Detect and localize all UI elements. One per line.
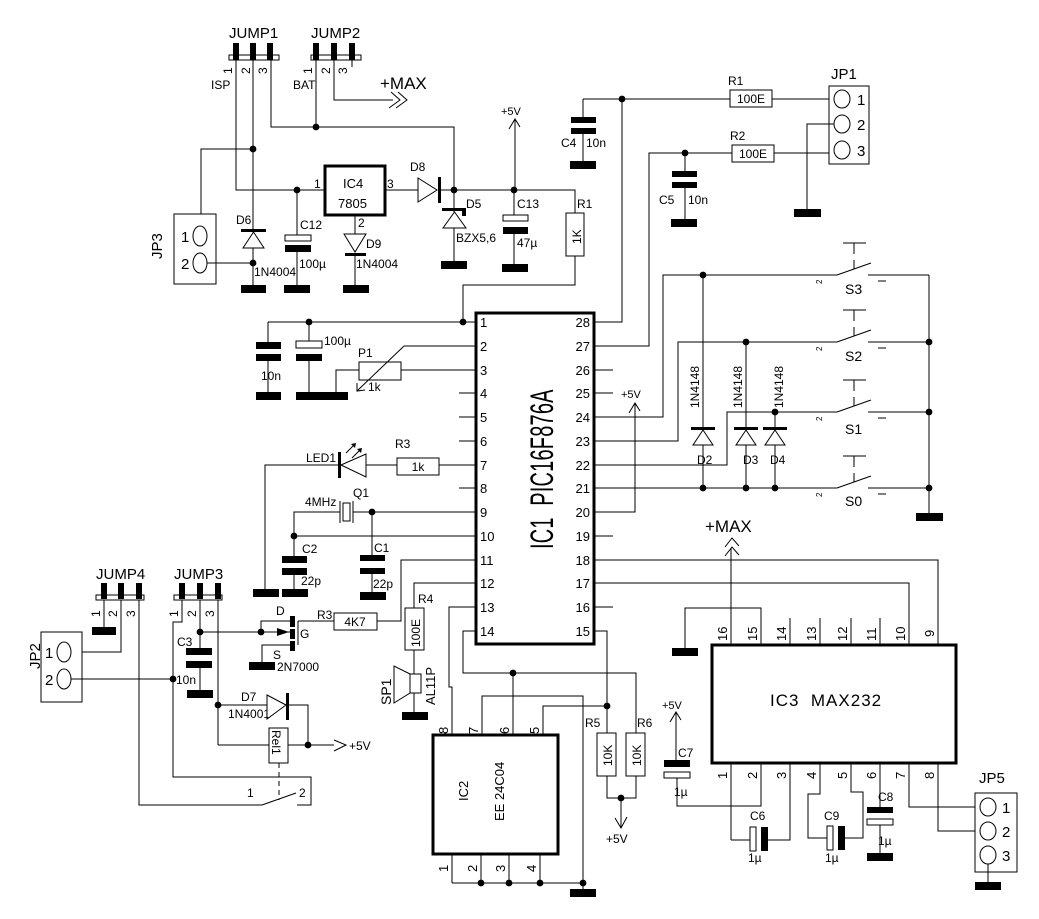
wire PIC pin24 to S3 <box>594 275 837 417</box>
svg-text:C2: C2 <box>302 542 318 556</box>
wire JP1 pin2 to ground <box>807 124 834 209</box>
svg-text:4: 4 <box>804 772 819 779</box>
svg-text:R1: R1 <box>728 74 744 88</box>
svg-text:R2: R2 <box>730 129 746 143</box>
svg-text:IC1 PIC16F876A: IC1 PIC16F876A <box>524 389 560 549</box>
node junction rail pin3 <box>506 880 513 887</box>
relay contact dashed link <box>278 763 280 800</box>
potentiometer P1 1k <box>357 346 404 394</box>
power symbol +5V (Rel1) <box>308 739 371 753</box>
svg-text:2: 2 <box>745 772 760 779</box>
svg-text:1: 1 <box>89 610 103 617</box>
wire IC3 pin3 to C6 <box>768 763 790 840</box>
svg-text:4K7: 4K7 <box>344 615 366 629</box>
wire IC2 pin5 to R5 node <box>543 706 607 735</box>
wire IC2 pin2 down <box>480 854 482 883</box>
pin stub IC1 pin6 <box>459 440 476 442</box>
svg-text:10: 10 <box>893 627 908 641</box>
wire JUMP3 pin1 to relay contact 2 <box>173 600 311 805</box>
switch S1 <box>815 380 886 437</box>
ground (JP5) <box>975 882 1001 890</box>
pin stub IC3 pin13 <box>819 618 821 645</box>
svg-text:16: 16 <box>715 627 730 641</box>
transistor Q 2N7000 <box>261 604 319 674</box>
svg-text:9: 9 <box>922 630 937 637</box>
svg-text:1µ: 1µ <box>748 851 762 865</box>
svg-text:3: 3 <box>480 363 487 378</box>
svg-text:JUMP3: JUMP3 <box>174 566 223 583</box>
svg-text:2: 2 <box>815 492 824 497</box>
wire node to C13 and R1 <box>454 190 575 213</box>
svg-text:2: 2 <box>815 279 824 284</box>
svg-text:2: 2 <box>319 67 333 74</box>
zener diode D5 BZX5,6 <box>442 190 496 261</box>
crystal Q1 4MHz <box>305 486 369 523</box>
svg-text:D7: D7 <box>241 690 257 704</box>
ground (10n) <box>256 392 281 400</box>
wire JUMP2 pin2 to +MAX arrow <box>334 60 393 100</box>
svg-text:1: 1 <box>715 772 730 779</box>
LED LED1 <box>306 443 366 478</box>
svg-text:3: 3 <box>493 865 508 872</box>
svg-text:R6: R6 <box>637 716 653 730</box>
resistor R5 10K <box>585 716 616 776</box>
wire IC1 pin11 to R3 4K7 <box>377 560 476 621</box>
connector header JUMP1 <box>221 25 279 74</box>
svg-text:21: 21 <box>576 481 590 496</box>
svg-text:9: 9 <box>480 505 487 520</box>
svg-text:S0: S0 <box>845 493 862 509</box>
regulator IC4 7805 <box>314 166 394 230</box>
wire IC1 pin17 to IC3 pin10 <box>594 583 909 645</box>
svg-text:R5: R5 <box>585 716 601 730</box>
svg-text:+5V: +5V <box>349 739 371 753</box>
speaker SP1 AL11P <box>378 666 438 712</box>
ground (100u) <box>296 392 322 400</box>
wire IC1 pin10 rail <box>294 535 476 537</box>
svg-text:1: 1 <box>167 610 181 617</box>
svg-text:2: 2 <box>45 672 53 689</box>
wire R1 to JP1 pin1 <box>772 98 834 100</box>
svg-text:12: 12 <box>835 627 850 641</box>
svg-text:JUMP4: JUMP4 <box>96 566 145 583</box>
node junction C13 <box>511 187 518 194</box>
capacitor C8 1u <box>867 790 894 853</box>
resistor R1 100E <box>728 74 772 107</box>
svg-text:1µ: 1µ <box>878 834 892 848</box>
ground (D6) <box>241 285 266 293</box>
wire S0 to right rail <box>868 487 929 489</box>
connector header JUMP2 <box>301 25 361 74</box>
ground (2N7000 source) <box>249 662 275 670</box>
wire gate node to 2N7000 <box>200 631 290 633</box>
diode D8 <box>410 160 454 203</box>
svg-text:IC3 MAX232: IC3 MAX232 <box>770 691 882 710</box>
wire P1 right to IC1 pin3 <box>401 369 476 371</box>
svg-text:IC2: IC2 <box>456 781 471 801</box>
capacitor C13 47u <box>503 190 539 264</box>
capacitor C1 22p <box>360 512 393 592</box>
ground (C4) <box>570 161 596 169</box>
svg-text:11: 11 <box>480 553 494 568</box>
svg-text:1N4148: 1N4148 <box>772 366 786 408</box>
wire JUMP3 pin2 down <box>199 600 201 648</box>
wire S2 to right rail <box>868 341 929 343</box>
driver IC3 MAX232 <box>712 627 956 779</box>
node junction IC2 pin6 <box>510 670 517 677</box>
capacitor C3 10n <box>176 635 212 690</box>
ground (C3) <box>187 690 213 698</box>
svg-text:C8: C8 <box>878 790 894 804</box>
svg-text:R3: R3 <box>395 437 411 451</box>
node junction rail pin2 <box>478 880 485 887</box>
wire JP3 pin1 up <box>201 149 253 226</box>
node junction Rel1/D7 cathode <box>305 742 312 749</box>
wire IC2 pin1 down <box>451 854 453 883</box>
wire IC1 pin1 rail <box>268 321 476 323</box>
diode D7 1N4001 <box>218 690 308 745</box>
node junction D8 output <box>451 187 458 194</box>
svg-text:Rel1: Rel1 <box>269 730 283 755</box>
wire S3 to right rail <box>868 274 929 276</box>
node junction JUMP2 pin1 / rail <box>313 124 320 131</box>
svg-text:7: 7 <box>466 727 481 734</box>
svg-text:C4: C4 <box>561 136 577 150</box>
svg-text:1: 1 <box>247 786 254 800</box>
node junction D3/S2 <box>743 339 750 346</box>
svg-text:7805: 7805 <box>338 196 367 211</box>
svg-text:6: 6 <box>497 727 512 734</box>
svg-text:1N4004: 1N4004 <box>254 265 296 279</box>
diode D3 1N4148 <box>731 342 759 488</box>
ground (D5) <box>441 261 467 269</box>
svg-text:14: 14 <box>480 624 494 639</box>
svg-text:IC4: IC4 <box>343 176 363 191</box>
pin stub IC3 pin11 <box>879 618 881 645</box>
ground (C8) <box>867 853 893 861</box>
wire JUMP4 pin2 to JP2 pin1 <box>71 600 121 652</box>
svg-text:2: 2 <box>239 67 253 74</box>
svg-text:3: 3 <box>857 143 865 160</box>
ground (C5) <box>671 219 697 227</box>
microcontroller IC1 PIC16F876A <box>476 313 594 644</box>
svg-text:13: 13 <box>804 627 819 641</box>
wire IC3 pin2 to C7 <box>677 763 761 806</box>
wire Q1 right to IC1 pin9 <box>353 511 476 513</box>
svg-text:28: 28 <box>576 315 590 330</box>
svg-text:R1: R1 <box>577 197 593 211</box>
wire IC1 pin12 to R4 <box>414 583 476 608</box>
ground (JP1 pin2) <box>794 209 821 217</box>
node junction D2/S0 <box>700 485 707 492</box>
capacitor C4 10n <box>561 99 606 161</box>
svg-text:23: 23 <box>576 434 590 449</box>
svg-text:5: 5 <box>527 727 542 734</box>
svg-text:1: 1 <box>480 315 487 330</box>
svg-text:15: 15 <box>745 627 760 641</box>
pin stub IC1 pin25 <box>594 392 613 394</box>
svg-text:D3: D3 <box>743 453 759 467</box>
svg-text:10K: 10K <box>601 745 615 766</box>
resistor R4 100E <box>405 592 434 650</box>
connector header JUMP4 <box>89 566 145 617</box>
svg-text:D6: D6 <box>236 213 252 227</box>
capacitor C12 100u <box>285 190 326 285</box>
svg-text:8: 8 <box>436 727 451 734</box>
wire IC2 pin3 down <box>508 854 510 883</box>
resistor R1 1K <box>566 197 593 256</box>
wire IC2 pin7 to ground rail <box>482 696 583 883</box>
node junction C2/pin10 <box>291 533 298 540</box>
power symbol +MAX (IC3 pin16) <box>705 517 752 645</box>
node junction Q1/C1 <box>369 509 376 516</box>
wire JP5 pin3 to ground <box>987 864 989 882</box>
svg-text:10n: 10n <box>176 673 196 687</box>
svg-text:6: 6 <box>864 772 879 779</box>
svg-text:3: 3 <box>124 610 138 617</box>
node junction C3/gate <box>197 629 204 636</box>
svg-text:C5: C5 <box>659 193 675 207</box>
wire JUMP1 pin3 to D8 node rail <box>271 60 454 190</box>
svg-text:+5V: +5V <box>501 106 522 118</box>
svg-text:2: 2 <box>1002 824 1010 841</box>
wire IC1 pin13 to IC2 pin8 <box>449 607 476 735</box>
capacitor C9 1u <box>824 809 845 865</box>
svg-text:3: 3 <box>336 67 350 74</box>
pin stub IC1 pin16 <box>594 606 613 608</box>
svg-text:7: 7 <box>480 458 487 473</box>
svg-text:R3: R3 <box>317 608 333 622</box>
svg-text:24: 24 <box>576 410 590 425</box>
svg-text:27: 27 <box>576 339 590 354</box>
svg-text:4: 4 <box>480 386 487 401</box>
wire IC1 pin18 to IC3 pin9 <box>594 560 938 645</box>
svg-text:100E: 100E <box>737 92 765 106</box>
svg-text:BZX5,6: BZX5,6 <box>456 231 496 245</box>
ground (LED1) <box>253 589 279 597</box>
node junction 100u cap <box>306 319 313 326</box>
svg-text:D5: D5 <box>466 197 482 211</box>
svg-text:2: 2 <box>857 117 865 134</box>
svg-text:D8: D8 <box>410 160 426 174</box>
svg-text:10K: 10K <box>630 745 644 766</box>
node junction JP2 pin2 wire <box>170 676 177 683</box>
node junction D3/S0 <box>743 485 750 492</box>
svg-text:1N4148: 1N4148 <box>731 366 745 408</box>
svg-text:5: 5 <box>835 772 850 779</box>
svg-text:100E: 100E <box>739 147 767 161</box>
svg-text:4MHz: 4MHz <box>305 495 336 509</box>
svg-text:3: 3 <box>387 177 394 191</box>
svg-text:C7: C7 <box>678 746 694 760</box>
svg-text:+5V: +5V <box>606 832 628 846</box>
node junction R5/R6 <box>618 795 625 802</box>
svg-text:+5V: +5V <box>662 700 683 712</box>
svg-text:D2: D2 <box>697 453 713 467</box>
svg-text:2: 2 <box>815 416 824 421</box>
resistor R3 1k <box>366 437 439 475</box>
resistor R3 4K7 <box>317 608 377 630</box>
diode D2 1N4148 <box>688 275 715 488</box>
svg-text:6: 6 <box>480 434 487 449</box>
svg-text:AL11P: AL11P <box>423 667 438 705</box>
connector JP5 <box>975 770 1017 872</box>
node junction C5 <box>682 150 689 157</box>
wire JP3 pin2 to D6 node <box>207 262 253 264</box>
pin stub IC1 pin4 <box>459 392 476 394</box>
svg-text:1N4001: 1N4001 <box>228 707 270 721</box>
pin stub IC1 pin19 <box>594 535 613 537</box>
node junction 2N7000 drain link <box>258 629 265 636</box>
svg-text:1µ: 1µ <box>825 851 839 865</box>
svg-text:2: 2 <box>185 610 199 617</box>
svg-text:+5V: +5V <box>621 389 642 401</box>
pin stub IC1 pin5 <box>459 416 476 418</box>
svg-text:5: 5 <box>480 410 487 425</box>
svg-text:47µ: 47µ <box>517 236 537 250</box>
svg-text:22p: 22p <box>301 574 321 588</box>
node junction rail S0 <box>926 485 933 492</box>
svg-text:S3: S3 <box>845 281 862 297</box>
svg-text:20: 20 <box>576 505 590 520</box>
power symbol +MAX (top) <box>380 74 427 108</box>
pin stub IC3 pin12 <box>850 618 852 645</box>
diode D4 1N4148 <box>763 366 787 488</box>
pin stub IC1 pin26 <box>594 369 613 371</box>
power symbol +5V (C7) <box>662 700 683 760</box>
svg-text:D4: D4 <box>770 453 786 467</box>
capacitor C5 10n <box>659 153 708 219</box>
svg-text:2: 2 <box>358 216 365 230</box>
svg-text:22: 22 <box>576 458 590 473</box>
svg-text:+MAX: +MAX <box>380 74 427 93</box>
wire JUMP1 pin2 down to D6 <box>252 60 254 229</box>
svg-text:2: 2 <box>815 346 824 351</box>
pin stub IC3 pin14 <box>789 618 791 645</box>
node junction rail right <box>580 880 587 887</box>
svg-text:7: 7 <box>893 772 908 779</box>
svg-text:2: 2 <box>106 610 120 617</box>
wire IC3 pin4 to C9 <box>808 763 827 838</box>
ground (C12) <box>284 285 310 293</box>
node junction D4/S0 <box>772 485 779 492</box>
svg-text:14: 14 <box>774 627 789 641</box>
svg-text:1: 1 <box>181 229 189 246</box>
svg-text:17: 17 <box>576 576 590 591</box>
ground (D9) <box>343 285 369 293</box>
svg-text:4: 4 <box>524 865 539 872</box>
svg-text:C12: C12 <box>300 218 322 232</box>
node junction R1/pin1 <box>460 319 467 326</box>
capacitor C6 1u <box>748 809 768 865</box>
svg-text:C6: C6 <box>750 809 766 823</box>
wire JUMP2 pin3 stub <box>351 60 353 67</box>
wire R4 to speaker <box>413 650 415 674</box>
svg-text:1N4148: 1N4148 <box>688 366 702 408</box>
node junction JP3 pin1 wire <box>250 146 257 153</box>
svg-text:3: 3 <box>1002 848 1010 865</box>
svg-text:18: 18 <box>576 553 590 568</box>
wire IC2 pin4 down <box>539 854 541 883</box>
pin stub IC1 pin8 <box>459 487 476 489</box>
ground (SP1) <box>402 712 428 720</box>
relay contact blade <box>247 786 306 805</box>
svg-text:100µ: 100µ <box>299 257 326 271</box>
svg-text:13: 13 <box>480 600 494 615</box>
svg-text:2N7000: 2N7000 <box>277 660 319 674</box>
svg-text:+MAX: +MAX <box>705 517 752 536</box>
power symbol +5V (R5/R6 pullups) <box>606 798 628 846</box>
wire LED1 cathode to ground <box>265 465 338 589</box>
diode D9 1N4004 <box>344 215 398 285</box>
wire S1 to right rail <box>868 411 929 413</box>
svg-text:SP1: SP1 <box>378 678 394 705</box>
wire R5/R6 bottoms joined <box>607 776 636 798</box>
power symbol +5V (PIC pin20) <box>594 389 642 512</box>
svg-text:C3: C3 <box>177 635 193 649</box>
svg-text:P1: P1 <box>358 346 373 360</box>
svg-text:D9: D9 <box>366 237 382 251</box>
svg-text:25: 25 <box>576 386 590 401</box>
wire IC3 pin5 to C9 <box>845 763 863 838</box>
svg-text:12: 12 <box>480 576 494 591</box>
svg-text:1k: 1k <box>368 380 382 394</box>
svg-text:1: 1 <box>221 67 235 74</box>
wire IC3 pin6 to C8 <box>879 763 881 807</box>
svg-text:ISP: ISP <box>211 78 230 92</box>
switch S0 <box>815 456 886 509</box>
wire IC1 pin14 to R6 <box>463 631 636 733</box>
svg-text:C13: C13 <box>517 197 539 211</box>
connector JP1 <box>829 66 869 164</box>
wire JUMP4 pin1 to ground <box>103 600 105 627</box>
svg-text:8: 8 <box>922 772 937 779</box>
svg-text:10n: 10n <box>586 136 606 150</box>
wire IC3 pin8 to JP5 pin2 <box>938 763 980 831</box>
ground (IC3 pin15) <box>672 648 698 656</box>
svg-text:Q1: Q1 <box>353 486 369 500</box>
wire PIC pin23 to S2 <box>594 342 837 441</box>
eeprom IC2 EE 24C04 <box>433 727 558 872</box>
svg-text:1: 1 <box>857 92 865 109</box>
wire IC3 pin1 to C6 <box>730 763 732 840</box>
svg-text:JP3: JP3 <box>149 233 166 259</box>
connector JP2 <box>27 632 82 702</box>
wire PIC pin27 riser and rail to R2 <box>594 153 732 346</box>
ground (C1) <box>360 592 386 600</box>
capacitor 100u (MCLR) <box>296 322 351 392</box>
wire rail C4 to R1 <box>583 98 730 100</box>
wire IC2 ground rail <box>452 882 583 884</box>
wire PIC pin28 riser <box>594 99 622 322</box>
svg-text:3: 3 <box>203 610 217 617</box>
node junction D2/S3 <box>700 272 707 279</box>
svg-text:10n: 10n <box>261 369 281 383</box>
node junction C12/IC4 input <box>294 187 301 194</box>
ground (P1) <box>322 392 348 400</box>
ground (switch rail) <box>916 513 943 521</box>
node junction rail S2 <box>926 339 933 346</box>
svg-text:G: G <box>300 627 309 641</box>
node junction D6/JP3 pin2 <box>250 260 257 267</box>
wire PIC pin22 to S1 <box>594 412 837 465</box>
svg-text:26: 26 <box>576 363 590 378</box>
svg-text:JP5: JP5 <box>979 770 1005 787</box>
wire JUMP2 pin1 down <box>315 60 317 127</box>
capacitor C7 1u <box>664 746 694 799</box>
wire IC3 pin15 to ground <box>685 608 761 648</box>
svg-text:100E: 100E <box>409 619 423 647</box>
